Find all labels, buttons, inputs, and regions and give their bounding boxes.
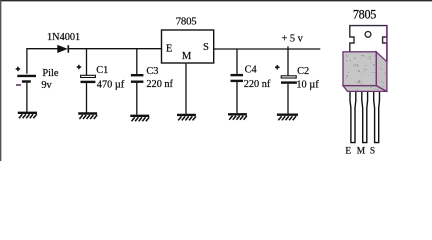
svg-text:M: M — [357, 147, 366, 157]
TO-220 leg M — [362, 91, 368, 143]
svg-text:+ 5 v: + 5 v — [282, 34, 304, 45]
TO-220 body speckles — [346, 55, 386, 90]
svg-text:C1: C1 — [96, 65, 108, 76]
diode D1 1N4001 — [58, 45, 69, 53]
wire: diode cathode to regulator E pin — [68, 48, 161, 50]
TO-220 leg S — [374, 91, 380, 143]
svg-text:7805: 7805 — [176, 15, 197, 27]
wire: C4 branch from output rail — [236, 49, 238, 74]
wire: C3 to ground — [136, 83, 138, 115]
wire: input rail (battery corner to diode anode) — [27, 49, 59, 74]
svg-text:E: E — [166, 43, 172, 54]
svg-text:220 nf: 220 nf — [244, 79, 271, 90]
frame left border — [0, 0, 2, 161]
svg-text:220 nf: 220 nf — [146, 79, 173, 90]
ground (C3) — [130, 116, 149, 122]
svg-text:C4: C4 — [245, 64, 257, 75]
wire: C3 branch from rail — [136, 49, 138, 75]
capacitor C3 — [131, 75, 144, 82]
TO-220 body bottom face — [343, 86, 387, 92]
capacitor C4 — [231, 75, 244, 81]
svg-text:1N4001: 1N4001 — [47, 32, 80, 43]
ground (battery) — [18, 113, 37, 119]
svg-text:9v: 9v — [41, 80, 52, 91]
TO-220 tab outline — [350, 26, 387, 62]
svg-text:10 µf: 10 µf — [296, 80, 319, 91]
ground (C2) — [277, 115, 298, 121]
svg-text:470 µf: 470 µf — [97, 80, 125, 91]
svg-text:M: M — [182, 51, 192, 62]
svg-text:7805: 7805 — [353, 7, 376, 21]
TO-220 leg E — [350, 91, 356, 143]
regulator U1 7805 box — [162, 30, 214, 63]
svg-text:C3: C3 — [146, 66, 158, 77]
wire: C1 to ground — [86, 83, 88, 112]
TO-220 mounting hole — [365, 32, 371, 38]
frame top border — [0, 0, 432, 2]
wire: C2 to ground — [287, 84, 289, 114]
svg-text:S: S — [370, 147, 375, 157]
wire: output rail (S pin to end) — [214, 48, 321, 50]
svg-text:E: E — [345, 147, 351, 157]
TO-220 tab right edge (purple) — [386, 26, 388, 62]
wire: C1 branch from rail — [86, 49, 88, 75]
ground (C4) — [228, 114, 247, 120]
ground (M pin) — [177, 115, 196, 121]
TO-220 body front face — [343, 52, 376, 86]
svg-text:Pile: Pile — [42, 68, 58, 79]
capacitor C2 (polarized) — [275, 65, 297, 83]
wire: C4 to ground — [236, 82, 238, 113]
wire: M pin to ground — [185, 64, 187, 114]
ground (C1) — [78, 114, 97, 120]
TO-220 body right face — [376, 52, 387, 92]
battery B1 (Pile) — [16, 67, 36, 112]
svg-text:C2: C2 — [297, 66, 309, 77]
wire: C2 branch from output rail (with overshoot tick) — [287, 46, 289, 75]
svg-text:S: S — [203, 42, 209, 53]
capacitor C1 (polarized) — [77, 65, 96, 82]
